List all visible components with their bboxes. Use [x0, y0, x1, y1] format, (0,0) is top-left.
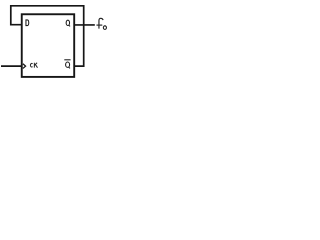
pin label CK: letter K	[34, 63, 37, 68]
wire: clock input	[1, 65, 22, 67]
output label subscript o	[103, 26, 106, 30]
clock edge-trigger triangle	[23, 64, 26, 69]
pin label Qbar glyph	[66, 62, 70, 68]
pin label Q	[66, 20, 70, 26]
pin label Qbar overline	[64, 59, 70, 61]
pin label CK: letter C	[30, 63, 32, 67]
D flip-flop U1 body	[22, 14, 74, 77]
output label f crossbar	[96, 24, 102, 26]
wire: Qbar feedback loop to D input	[11, 6, 84, 66]
output label f stem and hook	[99, 18, 103, 28]
pin label D	[26, 20, 29, 26]
wire: Q output to f_o	[74, 24, 95, 26]
